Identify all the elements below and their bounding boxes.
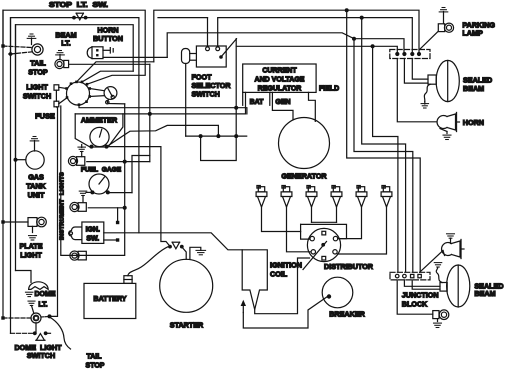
svg-text:LT.: LT. [38,302,47,309]
ground parking lamp 2 [437,319,439,322]
wire ammeter to starter switch [161,147,169,246]
node ammeter left [90,145,94,149]
ammeter M1 housing [75,114,123,147]
dome light lamp [29,282,49,290]
battery BT1 [84,283,136,318]
spark plug 5 [358,187,364,192]
instrument light 3 [70,251,79,260]
instrument light 2 [70,202,79,211]
wire panel main drop [149,64,151,161]
svg-text:STARTER: STARTER [170,320,204,329]
regulator tick mid [269,92,271,105]
wire plug4 to distributor [336,207,338,222]
wire dome connector left [3,317,31,319]
lamp tail stop [32,44,43,55]
light switch terminal 1 [70,82,73,85]
sealed beam 1 [428,75,436,84]
instrument light 1 [68,156,77,165]
svg-text:SW.: SW. [86,236,99,243]
spark plug 1 [258,187,264,192]
svg-text:HORN: HORN [463,118,484,127]
svg-text:LAMP: LAMP [462,28,483,37]
spark plug 3 [308,187,314,192]
wire GEN [272,92,293,119]
horn 2 [442,243,452,256]
wire tail-stop feed 2 [11,52,33,54]
distributor terminal NW [310,236,314,240]
node tail feed 2 [8,51,13,56]
ground horn 1 [446,132,448,134]
ground tail-stop lamp [30,33,33,35]
svg-text:BUTTON: BUTTON [93,34,123,43]
wire tail stop pigtail [50,317,71,349]
light switch terminal 5 [88,87,91,90]
wire plate light [3,221,28,223]
foot selector terminal 1 [206,47,210,51]
svg-text:GENERATOR: GENERATOR [281,172,327,181]
wire connector to box b [190,59,197,61]
node bus2 branch [360,16,364,20]
light switch terminal 2 [75,81,78,84]
wire fuse top to switch [59,87,67,88]
node fuel left [90,190,94,194]
parking lamp 2 [433,311,439,319]
node bus3 merge [352,37,356,41]
wire dome switch left [11,332,33,334]
svg-text:LT.: LT. [61,38,70,47]
light switch S1 [67,82,90,105]
wire ignition switch to coil [104,233,242,250]
breaker [322,277,353,308]
wire JB1 to beam high [412,59,428,80]
ground plate light [32,226,34,232]
wire distributor feeder left [301,224,310,239]
svg-text:UNIT: UNIT [28,191,45,200]
svg-text:GEN: GEN [275,99,290,106]
wire panel right edge [61,106,125,255]
dome connector [31,313,41,323]
dimmer switch S2 [104,87,117,100]
svg-text:TAIL: TAIL [86,353,102,360]
distributor terminal SW [311,250,315,254]
svg-text:FOOT: FOOT [192,72,213,81]
wire light switch low feed [79,105,247,114]
parking lamp 1 [438,24,444,32]
wire bus4 [236,46,397,51]
svg-text:SEALED: SEALED [463,76,492,85]
wire dome switch feed [35,323,37,334]
wire plug3-plug4 bridge [312,221,337,223]
ignition switch box [82,222,104,243]
junction block 1 [390,50,430,59]
light switch terminal 6 [88,95,91,98]
wire left column 1 down [2,10,4,318]
distributor terminal top [322,231,326,235]
JB1 terminal 1 [395,52,399,56]
spark plug 6 [383,187,389,192]
regulator box [243,64,316,92]
wire switch diag 2 [82,71,133,82]
svg-text:SWITCH: SWITCH [192,90,220,99]
ground ammeter chain [81,145,83,148]
svg-text:BEAM: BEAM [474,289,495,298]
wire light2 [88,207,124,209]
breaker terminal [327,294,331,298]
ground beam lamp [59,50,62,52]
wire ign-sw out 2 [104,239,118,241]
wire plug3 to distributor [311,207,313,222]
wire beam2 pigtail [436,267,442,282]
node link 2 [216,134,220,138]
distributor terminal NE [333,236,337,240]
wire coil to breaker [243,297,327,329]
svg-text:REGULATOR: REGULATOR [258,86,302,93]
svg-text:BEAM: BEAM [463,84,484,93]
svg-text:BAT: BAT [250,99,265,106]
JB1 terminal 3 [410,52,414,56]
svg-text:FIELD: FIELD [319,85,339,92]
node tail feed [1,44,4,47]
spark plug 2 [283,187,289,192]
svg-text:CURRENT: CURRENT [262,68,297,75]
ground parking lamp [442,7,445,9]
light switch terminal 8 [78,103,81,106]
wire beam lamp to panel [69,63,150,65]
ignition switch connector [69,227,82,240]
wire fuse bottom to switch [59,98,67,104]
wire dimmer pigtail [107,100,124,104]
wire JB2 to horn 2 [420,251,443,273]
wire FIELD [309,92,316,121]
wire fuse to dome [50,107,58,317]
light switch terminal 7 [85,100,88,103]
node link 1 [199,134,203,138]
node ign out2 [116,238,119,241]
svg-text:STOP: STOP [86,363,105,369]
ignition coil T1 [242,250,267,310]
starter motor [160,259,213,312]
regulator tick left [242,92,244,105]
foot selector switch box [196,46,226,67]
wire starter switch to starter [182,247,187,260]
wire dome connector right [41,316,48,318]
wire ammeter bottom to starter switch [108,146,161,148]
wire bundle 3 [362,18,406,272]
wire ammeter bus [75,113,245,115]
node dome left [1,316,4,319]
generator G1 [279,118,330,169]
distributor rotor [321,243,325,247]
node bus4 branch [371,44,375,48]
coil primary terminal [242,306,244,313]
wire switch to dimmer b [90,95,105,98]
ground beam2 pigtail [434,262,442,264]
JB1 terminal 2 [402,52,406,56]
wire distributor feeder top [301,224,347,238]
fuel gauge M2 [89,174,109,194]
wire bus3-left [16,25,134,160]
node dome right [48,314,52,318]
JB1 terminal 4 [417,52,421,56]
node light2 panel [123,206,127,210]
svg-text:AND VOLTAGE: AND VOLTAGE [255,77,305,84]
svg-text:DOME: DOME [35,291,56,298]
fuse F1 [54,85,59,90]
foot selector terminal 3 [219,55,223,59]
wire light1 [87,161,150,163]
svg-text:TANK: TANK [26,182,46,191]
wire ammeter right side [107,125,218,146]
wire tail-stop feed 1 [3,46,32,48]
node gas tank [14,158,18,162]
spark plug 4 [333,187,339,192]
plate light lamp [28,218,37,227]
ground dome 2 [28,300,35,302]
wire battery to starter switch [128,247,168,276]
wire bus1-left (stop light feed) [3,10,145,84]
wire horn button to bus3-right [103,56,167,58]
wire relay loop [201,136,237,160]
wire BAT [245,92,247,114]
node ign drop end [116,221,119,224]
svg-text:IGN.: IGN. [86,226,100,233]
wire relay link [186,135,247,137]
node ammeter right [105,145,109,149]
ground horn 2 [447,233,455,235]
wire bus2-left [11,18,139,233]
svg-text:TAIL: TAIL [30,59,46,68]
svg-text:JUNCTION: JUNCTION [402,291,439,300]
wire JB1 to horn [397,59,436,122]
horn button contact wire [103,49,110,51]
JB2 terminal 4 [418,274,421,277]
wire bus1-right [154,10,419,62]
wire switch to dimmer a [90,89,105,91]
svg-text:STOP LT. SW.: STOP LT. SW. [49,2,108,9]
JB2 terminal 2 [403,274,407,278]
svg-text:AMMETER: AMMETER [81,115,118,124]
wire connector to box a [190,53,197,55]
svg-text:SWITCH: SWITCH [27,351,55,360]
ground fuel chain [86,191,92,193]
JB2 terminal 1 [395,274,399,278]
distributor terminal bottom [322,256,326,260]
gas tank unit sender [26,151,44,169]
stop light switch symbol [72,16,76,20]
svg-text:BATTERY: BATTERY [93,294,126,303]
distributor D1 [307,228,340,261]
ground beam1 pigtail [421,103,429,105]
light switch terminal 3 [81,81,84,84]
wire plug1 to distributor [262,207,301,232]
junction block 2 [390,272,430,280]
wire bus2-right segment b [218,18,413,52]
svg-text:BLOCK: BLOCK [402,300,428,309]
wire foot-switch drop [185,64,187,137]
lamp beam indicator [55,59,64,68]
wire JB2 to parking lamp 2 [397,280,433,314]
wire JB2 to beam2 a [404,280,440,286]
light switch terminal 10 [66,96,69,99]
svg-text:LIGHT: LIGHT [26,83,48,92]
wire JB2 to beam2 b [412,280,440,289]
svg-text:LIGHT: LIGHT [20,251,42,260]
horn 1 [437,116,447,129]
wire left column 3 down [15,25,17,271]
light switch terminal 4 [86,83,89,86]
wire dome light feed [16,271,32,283]
svg-text:COIL: COIL [270,270,288,279]
wire bundle 2 [354,39,413,272]
wire bus2-right segment a [158,17,208,19]
node light1 panel [123,160,127,164]
JB2 terminal 3 [411,274,414,277]
light switch terminal 9 [65,87,68,90]
dome light switch symbol [37,334,45,340]
wire bundle 4 [373,46,398,272]
wire fuel to panel [108,192,132,194]
svg-text:BREAKER: BREAKER [329,310,365,319]
wire switch diag 1 [77,62,154,82]
wire coil HT to distributor [255,258,310,314]
svg-text:PLATE: PLATE [19,242,42,251]
node plate light [1,220,4,223]
ground gas tank [33,136,36,138]
svg-text:GAS: GAS [28,172,44,181]
wire dome switch right [48,332,51,334]
node link 3 [234,134,238,138]
svg-text:DISTRIBUTOR: DISTRIBUTOR [324,262,374,271]
svg-text:SWITCH: SWITCH [23,92,51,101]
wire beam1 pigtail [424,84,430,101]
wire left column 2 down [10,18,12,334]
starter switch [168,245,172,249]
distributor terminal SE [333,250,337,254]
svg-text:FUSE: FUSE [35,112,55,121]
wire plug6 to distributor [337,207,386,254]
svg-text:FUEL GAGE: FUEL GAGE [81,167,122,174]
wire gas tank [16,159,26,161]
battery terminal [124,276,132,284]
wire plug5 to distributor [338,207,362,239]
node bus1 branch [345,8,349,12]
ground dome light [25,291,33,293]
sealed beam 2 [440,283,447,292]
wire ignition feed vertical [235,39,237,136]
node fuel right [106,190,110,194]
wire bundle 1 [347,10,421,272]
horn button U1 [87,47,92,59]
ammeter meter [90,127,109,146]
foot selector terminal 2 [216,47,220,51]
wire JB1 to parking lamp [420,32,439,50]
svg-text:STOP: STOP [28,68,48,77]
ground starter [190,247,201,259]
wire plug2 to distributor [287,207,311,252]
node ammeter bus [148,112,152,116]
foot selector connector [182,49,190,64]
wire ign-sw drop [117,208,119,223]
node low feed [234,106,238,110]
wire JB1 to beam low [404,59,428,84]
wire bus3-right [167,33,404,58]
